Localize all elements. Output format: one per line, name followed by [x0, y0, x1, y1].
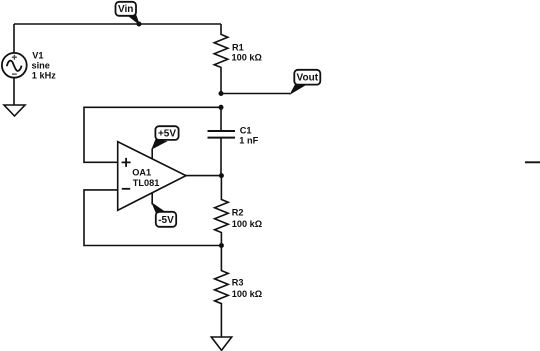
ground under V1: [4, 105, 25, 116]
wire top horizontal Vin net: [14, 23, 221, 25]
resistor R1: [214, 24, 228, 94]
junction dot lower feedback node: [219, 243, 224, 248]
wire rail node to C1 top plate: [220, 107, 222, 131]
wire op-amp - input loop to lower node: [84, 190, 221, 246]
resistor R3: [215, 246, 229, 338]
svg-text:1 kHz: 1 kHz: [32, 71, 56, 81]
wire feedback top loop to op-amp + input: [84, 107, 221, 162]
wire stub right edge: [525, 161, 540, 163]
svg-text:R3: R3: [232, 278, 244, 288]
label V1 sine 1 kHz: [32, 51, 57, 81]
resistor R2: [215, 176, 229, 246]
svg-text:R2: R2: [232, 208, 244, 218]
svg-text:OA1: OA1: [132, 167, 151, 177]
net flag Vout: [291, 70, 321, 94]
wire V1 top lead: [13, 24, 15, 53]
power flag -5V: [152, 193, 176, 227]
svg-text:C1: C1: [240, 126, 252, 136]
node Vout junction dot: [219, 91, 224, 96]
svg-text:sine: sine: [32, 61, 50, 71]
voltage source V1: [2, 53, 27, 78]
svg-text:Vout: Vout: [297, 73, 319, 84]
junction dot Vin node: [137, 22, 142, 27]
capacitor C1: [208, 131, 236, 138]
svg-text:1 nF: 1 nF: [239, 135, 258, 145]
node feedback junction dot: [219, 105, 224, 110]
wire V1 bottom lead: [13, 78, 15, 105]
svg-text:100 kΩ: 100 kΩ: [232, 53, 262, 63]
svg-text:TL081: TL081: [133, 178, 160, 188]
wire to Vout flag: [221, 93, 290, 95]
op-amp - input marker: [122, 188, 130, 190]
op-amp OA1 triangle: [118, 142, 186, 211]
ground under R3: [211, 337, 231, 350]
net flag Vin: [116, 2, 140, 24]
svg-text:100 kΩ: 100 kΩ: [232, 289, 262, 299]
label R3 100 kΩ: [232, 278, 262, 299]
op-amp + input marker: [122, 158, 131, 167]
label OA1 TL081: [132, 167, 159, 188]
svg-text:R1: R1: [232, 42, 244, 52]
label C1 1 nF: [239, 126, 258, 146]
wire op-amp output: [186, 175, 221, 177]
svg-text:Vin: Vin: [118, 4, 133, 15]
label R1 100 kΩ: [232, 42, 262, 62]
wire C1 bottom plate to output node: [220, 138, 222, 176]
junction dot output node: [219, 173, 224, 178]
label R2 100 kΩ: [232, 208, 262, 229]
svg-text:100 kΩ: 100 kΩ: [232, 219, 262, 229]
svg-text:+5V: +5V: [158, 128, 176, 139]
power flag +5V: [152, 126, 178, 159]
svg-text:V1: V1: [32, 51, 43, 61]
svg-text:-5V: -5V: [158, 215, 174, 226]
